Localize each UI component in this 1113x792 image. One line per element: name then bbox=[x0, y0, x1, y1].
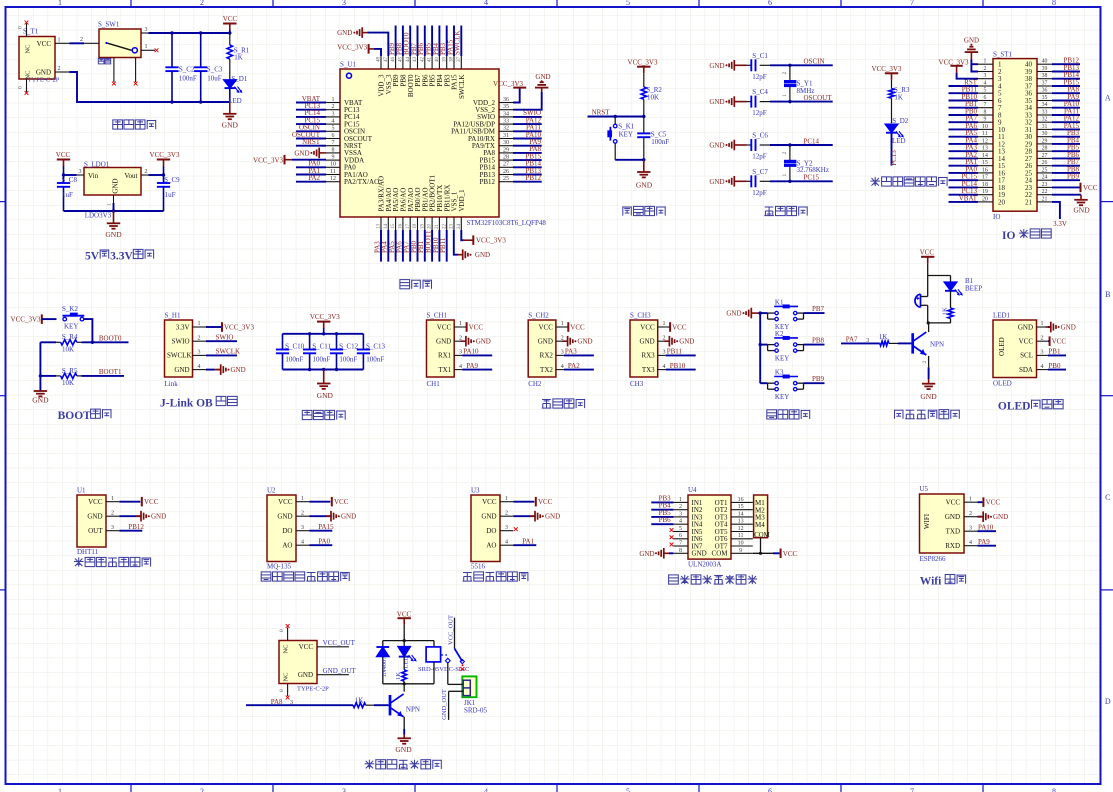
power VCC_3V3 indicator bbox=[872, 65, 902, 88]
svg-text:VCC: VCC bbox=[1052, 338, 1067, 346]
svg-text:5: 5 bbox=[679, 526, 682, 532]
driver U4 pins bbox=[673, 497, 752, 558]
sensor U1 DHT11 bbox=[77, 487, 166, 556]
svg-text:0: 0 bbox=[279, 689, 285, 692]
svg-text:5: 5 bbox=[984, 88, 987, 94]
svg-text:GND: GND bbox=[298, 671, 313, 679]
svg-text:GND: GND bbox=[231, 366, 246, 374]
svg-text:10: 10 bbox=[982, 124, 988, 130]
svg-text:CH1: CH1 bbox=[427, 380, 441, 388]
svg-text:1: 1 bbox=[107, 203, 113, 206]
svg-text:28: 28 bbox=[1042, 146, 1048, 152]
svg-text:0: 0 bbox=[279, 629, 285, 632]
svg-text:K1: K1 bbox=[775, 298, 784, 306]
LED alarm bbox=[944, 276, 962, 309]
svg-text:40: 40 bbox=[435, 57, 440, 63]
capacitor C6 row bbox=[0, 0, 833, 161]
svg-text:VCC: VCC bbox=[437, 323, 452, 331]
svg-text:10uF: 10uF bbox=[207, 74, 222, 82]
svg-text:39: 39 bbox=[442, 57, 447, 63]
svg-text:31: 31 bbox=[503, 133, 509, 139]
svg-text:Link: Link bbox=[165, 380, 179, 388]
U5 pin stubs bbox=[964, 496, 978, 546]
svg-text:16: 16 bbox=[982, 167, 988, 173]
svg-text:IO: IO bbox=[993, 213, 1000, 221]
ground VSS_1 pin23 bbox=[454, 230, 490, 260]
svg-text:GND: GND bbox=[475, 251, 490, 259]
svg-text:25: 25 bbox=[503, 176, 509, 182]
svg-text:33: 33 bbox=[503, 119, 509, 125]
svg-text:7: 7 bbox=[910, 787, 914, 792]
svg-text:1: 1 bbox=[111, 496, 114, 502]
svg-text:3: 3 bbox=[984, 73, 987, 79]
svg-text:7: 7 bbox=[984, 102, 987, 108]
svg-text:2: 2 bbox=[782, 152, 788, 155]
svg-text:TXD: TXD bbox=[946, 528, 960, 536]
svg-text:15: 15 bbox=[982, 160, 988, 166]
svg-text:3.3V: 3.3V bbox=[176, 323, 190, 331]
svg-text:VCC_3V3: VCC_3V3 bbox=[224, 324, 254, 332]
caption guangzhao bbox=[463, 572, 528, 581]
svg-text:43: 43 bbox=[413, 57, 418, 63]
svg-text:PA9: PA9 bbox=[978, 538, 990, 546]
svg-text:PA0: PA0 bbox=[318, 537, 330, 545]
svg-text:12pF: 12pF bbox=[752, 189, 767, 197]
svg-text:SWCLK: SWCLK bbox=[167, 352, 192, 360]
svg-text:S_R5: S_R5 bbox=[62, 367, 78, 375]
svg-text:15: 15 bbox=[391, 224, 396, 230]
svg-text:S_C3: S_C3 bbox=[207, 65, 223, 73]
svg-text:12pF: 12pF bbox=[752, 153, 767, 161]
svg-text:GND: GND bbox=[545, 513, 560, 521]
svg-text:17: 17 bbox=[406, 224, 411, 230]
svg-text:1: 1 bbox=[984, 59, 987, 65]
svg-text:3: 3 bbox=[459, 350, 462, 356]
net SWCLK jlink bbox=[206, 348, 240, 356]
svg-text:PB0: PB0 bbox=[1048, 362, 1061, 370]
svg-text:GND: GND bbox=[636, 181, 653, 190]
svg-text:SRD-05: SRD-05 bbox=[464, 706, 487, 714]
resistor R1 bbox=[227, 33, 250, 80]
svg-text:28: 28 bbox=[503, 155, 509, 161]
display LED1 OLED body bbox=[993, 312, 1037, 388]
svg-text:VBAT: VBAT bbox=[959, 194, 978, 202]
svg-text:OLED: OLED bbox=[993, 379, 1012, 387]
emitter relay bbox=[403, 717, 405, 735]
svg-text:PA15: PA15 bbox=[318, 523, 334, 531]
capacitor C7 row bbox=[0, 0, 833, 197]
svg-text:1: 1 bbox=[332, 97, 335, 103]
svg-text:TYPE-C-2P: TYPE-C-2P bbox=[28, 77, 60, 84]
svg-text:VDD_1: VDD_1 bbox=[458, 189, 466, 212]
svg-text:4: 4 bbox=[301, 539, 304, 545]
svg-text:14: 14 bbox=[384, 224, 389, 230]
svg-text:CH3: CH3 bbox=[630, 380, 644, 388]
svg-text:RX2: RX2 bbox=[540, 352, 554, 360]
capacitor C1 row bbox=[0, 0, 833, 81]
power port VCC_3V3 ldo bbox=[150, 151, 180, 175]
svg-text:PB12: PB12 bbox=[128, 523, 144, 531]
svg-text:1uF: 1uF bbox=[62, 191, 73, 199]
svg-text:100nF: 100nF bbox=[285, 356, 303, 364]
svg-text:8: 8 bbox=[679, 548, 682, 554]
svg-text:GND: GND bbox=[679, 338, 694, 346]
ground U4 bbox=[639, 548, 673, 559]
power VCC_3V3 VDDA pin9 bbox=[253, 155, 326, 165]
svg-text:1: 1 bbox=[782, 174, 788, 177]
H1 pin stubs bbox=[193, 321, 207, 370]
svg-text:46: 46 bbox=[391, 57, 396, 63]
svg-text:PA9: PA9 bbox=[466, 362, 478, 370]
svg-text:VCC_3V3: VCC_3V3 bbox=[493, 80, 523, 88]
svg-text:VCC: VCC bbox=[783, 550, 798, 558]
typec bottom stub nc bbox=[279, 684, 290, 700]
svg-text:S_CH3: S_CH3 bbox=[630, 312, 651, 320]
svg-text:VCC_3V3: VCC_3V3 bbox=[253, 156, 283, 164]
svg-text:6: 6 bbox=[679, 533, 682, 539]
svg-text:4: 4 bbox=[679, 519, 682, 525]
svg-text:GND_OUT: GND_OUT bbox=[441, 689, 448, 720]
svg-text:S_C7: S_C7 bbox=[752, 168, 768, 176]
net GND_OUT bbox=[317, 667, 356, 675]
svg-text:GND: GND bbox=[709, 178, 724, 186]
net BOOT1 wire bbox=[82, 368, 125, 376]
svg-text:GND_OUT: GND_OUT bbox=[323, 667, 357, 675]
svg-text:GND: GND bbox=[481, 513, 496, 521]
wire filter bottom rail bbox=[283, 368, 364, 371]
svg-text:12: 12 bbox=[738, 526, 744, 532]
power VCC_3V3 VDD_1 pin24 bbox=[461, 230, 506, 245]
svg-text:VCC: VCC bbox=[278, 498, 293, 506]
wire relay rails bbox=[383, 639, 434, 685]
svg-text:1: 1 bbox=[782, 94, 788, 97]
svg-text:24: 24 bbox=[457, 224, 462, 230]
svg-text:LED: LED bbox=[892, 137, 906, 145]
svg-text:12pF: 12pF bbox=[752, 73, 767, 81]
wire power top rail bbox=[149, 31, 232, 34]
svg-text:1uF: 1uF bbox=[165, 191, 176, 199]
svg-text:U3: U3 bbox=[471, 487, 480, 495]
svg-text:5: 5 bbox=[332, 126, 335, 132]
svg-text:VCC: VCC bbox=[538, 323, 553, 331]
svg-text:4: 4 bbox=[663, 364, 666, 370]
ground ldo bbox=[105, 211, 122, 239]
svg-text:1: 1 bbox=[561, 321, 564, 327]
capacitor C9 bbox=[157, 175, 180, 211]
crystal Y2 bbox=[782, 145, 829, 181]
svg-text:3: 3 bbox=[145, 27, 148, 33]
ground jlink bbox=[206, 364, 246, 375]
sensor U3 5516 bbox=[471, 487, 560, 571]
svg-text:4: 4 bbox=[1041, 364, 1044, 370]
connector TYPE-C power out bbox=[279, 641, 329, 693]
ST1 left net wires bbox=[949, 78, 979, 202]
connector ST1 body bbox=[993, 51, 1037, 221]
svg-text:VCC: VCC bbox=[986, 499, 1001, 507]
svg-text:KEY: KEY bbox=[619, 131, 633, 139]
svg-text:3: 3 bbox=[561, 350, 564, 356]
net SWIO jlink bbox=[206, 334, 237, 342]
svg-text:16: 16 bbox=[738, 497, 744, 503]
svg-text:4: 4 bbox=[198, 364, 201, 370]
svg-text:4: 4 bbox=[561, 364, 564, 370]
svg-text:11: 11 bbox=[982, 131, 988, 137]
svg-text:VCC: VCC bbox=[1019, 338, 1034, 346]
svg-text:GND: GND bbox=[538, 338, 553, 346]
key K2 gpio bbox=[760, 330, 824, 363]
crystal Y1 bbox=[782, 65, 814, 101]
power VCC ST1 pin23 bbox=[1052, 183, 1098, 193]
svg-text:8: 8 bbox=[332, 147, 335, 153]
svg-text:GND: GND bbox=[726, 310, 741, 318]
svg-text:S_K1: S_K1 bbox=[618, 123, 634, 131]
svg-text:SWCLK: SWCLK bbox=[216, 348, 241, 356]
svg-text:2: 2 bbox=[679, 504, 682, 510]
svg-text:VCC: VCC bbox=[946, 499, 961, 507]
svg-text:21: 21 bbox=[1042, 196, 1048, 202]
T1 pin2 stub bbox=[55, 66, 70, 72]
svg-text:1: 1 bbox=[58, 0, 62, 7]
power VCC relay bbox=[397, 610, 412, 640]
svg-text:1: 1 bbox=[679, 497, 682, 503]
svg-text:GND: GND bbox=[709, 62, 724, 70]
svg-text:5: 5 bbox=[626, 0, 630, 7]
wire reset bottom bbox=[615, 158, 645, 161]
mcu top net wires bbox=[388, 26, 462, 57]
net 3.3V ST1 pin21 bbox=[1052, 202, 1067, 228]
caption wifi bbox=[920, 575, 966, 588]
power VCC wifi bbox=[978, 497, 1001, 507]
svg-text:TX1: TX1 bbox=[438, 366, 451, 374]
svg-text:25: 25 bbox=[1042, 167, 1048, 173]
svg-text:29: 29 bbox=[1042, 138, 1048, 144]
svg-text:GND: GND bbox=[535, 73, 550, 81]
driver U4 ULN2003A body bbox=[688, 486, 731, 569]
svg-text:6: 6 bbox=[984, 95, 987, 101]
svg-text:1: 1 bbox=[505, 496, 508, 502]
svg-text:S_ST1: S_ST1 bbox=[993, 51, 1013, 59]
svg-text:4: 4 bbox=[984, 81, 987, 87]
svg-text:18: 18 bbox=[982, 182, 988, 188]
svg-text:36: 36 bbox=[1042, 88, 1048, 94]
svg-text:7: 7 bbox=[910, 0, 914, 7]
svg-text:13: 13 bbox=[377, 224, 382, 230]
svg-text:7: 7 bbox=[332, 140, 335, 146]
net PA8 base bbox=[246, 698, 353, 706]
svg-text:ESP8266: ESP8266 bbox=[920, 555, 947, 563]
svg-text:OLED: OLED bbox=[998, 401, 1031, 413]
power port VCC ldo bbox=[56, 151, 71, 175]
ldo gnd pin bbox=[107, 195, 114, 211]
resistor R4 bbox=[40, 333, 81, 353]
svg-text:NC: NC bbox=[25, 44, 32, 53]
caption jingzhen bbox=[764, 206, 807, 215]
svg-text:S_C13: S_C13 bbox=[366, 342, 386, 350]
svg-text:47: 47 bbox=[384, 57, 389, 63]
svg-text:VCC_3V3: VCC_3V3 bbox=[11, 316, 41, 324]
svg-text:S_C2: S_C2 bbox=[179, 65, 195, 73]
svg-text:6: 6 bbox=[332, 133, 335, 139]
caption zhuxinpian bbox=[400, 280, 432, 289]
svg-text:4: 4 bbox=[969, 540, 972, 546]
svg-text:GND: GND bbox=[476, 338, 491, 346]
svg-text:GND: GND bbox=[1073, 205, 1090, 214]
relay switch bbox=[441, 615, 465, 671]
capacitor C10 bbox=[276, 334, 305, 370]
typec top stub nc bbox=[279, 624, 290, 640]
svg-text:GND: GND bbox=[174, 366, 189, 374]
svg-text:44: 44 bbox=[406, 57, 411, 63]
svg-text:9: 9 bbox=[984, 117, 987, 123]
resistor R3 bbox=[889, 86, 910, 123]
svg-text:5V: 5V bbox=[85, 250, 100, 262]
svg-text:35: 35 bbox=[1042, 95, 1048, 101]
svg-text:100nF: 100nF bbox=[366, 356, 384, 364]
svg-text:VCC: VCC bbox=[469, 324, 484, 332]
T1 pin 0 top stub bbox=[18, 21, 29, 37]
svg-text:OUT: OUT bbox=[88, 527, 103, 535]
capacitor C8 bbox=[57, 173, 78, 211]
power VCC_3V3 jlink bbox=[206, 322, 254, 332]
svg-text:38: 38 bbox=[450, 57, 455, 63]
svg-text:4: 4 bbox=[332, 119, 335, 125]
svg-text:KEY: KEY bbox=[775, 354, 789, 362]
svg-text:1: 1 bbox=[663, 321, 666, 327]
ground power bbox=[222, 102, 239, 130]
svg-text:VCC: VCC bbox=[570, 324, 585, 332]
svg-text:GND: GND bbox=[639, 550, 654, 558]
svg-text:TX2: TX2 bbox=[540, 366, 553, 374]
svg-text:BOOT0: BOOT0 bbox=[99, 335, 122, 343]
svg-text:16: 16 bbox=[399, 224, 404, 230]
SW1 label kaiguan bbox=[98, 59, 110, 64]
key K1 bbox=[608, 117, 635, 160]
svg-text:MQ-135: MQ-135 bbox=[267, 562, 292, 570]
caption anjian bbox=[767, 410, 810, 419]
svg-text:11: 11 bbox=[330, 169, 336, 175]
sensor U2 MQ-135 bbox=[267, 487, 356, 571]
svg-text:3: 3 bbox=[663, 350, 666, 356]
svg-text:33: 33 bbox=[1042, 110, 1048, 116]
svg-text:26: 26 bbox=[1042, 160, 1048, 166]
svg-text:3: 3 bbox=[679, 511, 682, 517]
svg-text:39: 39 bbox=[1042, 66, 1048, 72]
svg-text:ULN2003A: ULN2003A bbox=[688, 561, 721, 569]
svg-text:2: 2 bbox=[145, 169, 148, 175]
svg-text:SWIO: SWIO bbox=[172, 338, 190, 346]
svg-text:NPN: NPN bbox=[930, 341, 944, 349]
key K1 gpio bbox=[760, 298, 824, 331]
diode 1N4007 bbox=[376, 641, 389, 684]
net PB0 oled bbox=[1048, 362, 1066, 370]
svg-text:TYPE-C-2P: TYPE-C-2P bbox=[297, 685, 329, 692]
svg-text:S_C8: S_C8 bbox=[61, 176, 77, 184]
svg-text:RX3: RX3 bbox=[641, 352, 655, 360]
svg-text:1: 1 bbox=[58, 787, 62, 792]
svg-text:VCC_OUT: VCC_OUT bbox=[447, 615, 454, 645]
svg-text:NRST: NRST bbox=[592, 109, 611, 117]
svg-text:S_C10: S_C10 bbox=[285, 342, 305, 350]
ground boot bbox=[32, 391, 49, 405]
svg-text:2: 2 bbox=[782, 72, 788, 75]
svg-text:PB6: PB6 bbox=[659, 516, 672, 524]
svg-text:GND: GND bbox=[222, 121, 239, 130]
svg-text:GND: GND bbox=[341, 513, 356, 521]
svg-text:VCC_3V3: VCC_3V3 bbox=[628, 59, 658, 67]
LED1 pin stubs bbox=[1037, 321, 1049, 370]
switch SW1 bbox=[80, 21, 141, 58]
svg-text:OSCOUT: OSCOUT bbox=[804, 94, 833, 102]
svg-text:18: 18 bbox=[413, 224, 418, 230]
svg-text:14: 14 bbox=[738, 511, 744, 517]
svg-text:KEY: KEY bbox=[64, 322, 78, 330]
T1 pin1 stub bbox=[55, 37, 70, 43]
svg-text:10: 10 bbox=[330, 162, 336, 168]
svg-text:D: D bbox=[1105, 697, 1111, 706]
SW1 pin3 stub bbox=[141, 27, 149, 33]
svg-text:41: 41 bbox=[428, 57, 433, 63]
capacitor C4 row bbox=[0, 0, 833, 117]
LED relay bbox=[398, 641, 416, 669]
capacitor C11 bbox=[303, 334, 332, 370]
wire keys vertical bbox=[759, 311, 762, 383]
svg-text:21: 21 bbox=[1025, 198, 1033, 206]
svg-text:6: 6 bbox=[768, 0, 772, 7]
ground VSS_3 pin47 bbox=[337, 27, 388, 56]
svg-text:GND: GND bbox=[317, 391, 334, 400]
svg-text:BEEP: BEEP bbox=[965, 285, 982, 293]
svg-text:GND: GND bbox=[105, 230, 122, 239]
svg-text:VCC: VCC bbox=[299, 643, 314, 651]
svg-text:S_CH2: S_CH2 bbox=[528, 312, 549, 320]
svg-text:29: 29 bbox=[503, 147, 509, 153]
svg-text:VCC: VCC bbox=[640, 323, 655, 331]
svg-text:GND: GND bbox=[395, 745, 412, 754]
svg-text:0: 0 bbox=[18, 86, 24, 89]
svg-text:GND: GND bbox=[112, 178, 120, 193]
resistor 1K relay bbox=[395, 657, 406, 684]
svg-text:23: 23 bbox=[1042, 182, 1048, 188]
svg-text:1: 1 bbox=[969, 496, 972, 502]
svg-text:GND: GND bbox=[709, 142, 724, 150]
svg-text:5: 5 bbox=[626, 787, 630, 792]
svg-text:GND: GND bbox=[337, 29, 352, 37]
svg-text:2: 2 bbox=[200, 787, 204, 792]
svg-text:J-Link OB: J-Link OB bbox=[160, 397, 213, 409]
svg-text:GND: GND bbox=[920, 392, 937, 401]
connector T1 TYPE-C-2P bbox=[19, 28, 60, 84]
svg-text:100nF: 100nF bbox=[339, 356, 357, 364]
mcu U1 pins bbox=[326, 56, 513, 230]
svg-text:PA10: PA10 bbox=[463, 348, 479, 356]
svg-text:2: 2 bbox=[80, 37, 83, 43]
svg-text:GND: GND bbox=[945, 513, 960, 521]
caption OLED bbox=[998, 400, 1063, 413]
svg-text:4: 4 bbox=[459, 364, 462, 370]
svg-text:9: 9 bbox=[739, 548, 742, 554]
svg-text:S_C4: S_C4 bbox=[752, 88, 768, 96]
svg-text:STM32F103C8T6_LQFP48: STM32F103C8T6_LQFP48 bbox=[467, 219, 547, 227]
svg-text:1: 1 bbox=[301, 496, 304, 502]
svg-text:PA3: PA3 bbox=[565, 348, 577, 356]
transistor Q NPN alarm bbox=[913, 323, 944, 355]
mcu U1 STM32F103C8T6 body bbox=[340, 60, 546, 227]
wire ldo out bbox=[149, 173, 166, 176]
svg-text:S_U1: S_U1 bbox=[340, 60, 356, 68]
svg-text:42: 42 bbox=[420, 57, 425, 63]
net PA7 base wire bbox=[841, 336, 880, 344]
svg-text:2: 2 bbox=[984, 66, 987, 72]
